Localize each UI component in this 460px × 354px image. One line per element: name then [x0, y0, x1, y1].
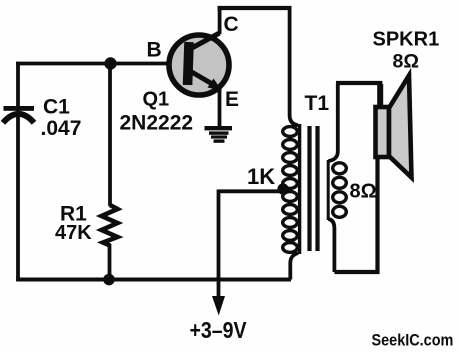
speaker SPKR1: [376, 76, 412, 178]
label E: [225, 88, 239, 111]
svg-text:C: C: [224, 13, 239, 36]
label 1K: [247, 164, 275, 189]
wire: T1 primary bottom lead: [290, 253, 298, 280]
wire: base wire from C1/R1 node to Q1 base: [16, 62, 186, 66]
resistor R1: [102, 205, 118, 246]
label 47K: [55, 222, 92, 244]
wire: R1 branch lower: [108, 244, 112, 280]
wire: collector lead: [218, 6, 222, 34]
label T1: [305, 92, 330, 115]
wire: +V tap wire horizontal: [219, 189, 283, 193]
transformer T1 secondary coil: [328, 160, 346, 220]
supply arrow +3-9V: [212, 296, 225, 316]
node: junction dot base/R1: [104, 57, 116, 69]
svg-text:8Ω: 8Ω: [393, 51, 419, 73]
svg-text:Q1: Q1: [143, 89, 170, 111]
svg-text:2N2222: 2N2222: [120, 112, 194, 135]
label .047: [41, 117, 82, 140]
wire: speaker top wire: [336, 83, 383, 107]
svg-text:SeekIC.com: SeekIC.com: [372, 331, 454, 349]
label 2N2222: [120, 112, 194, 135]
svg-text:C1: C1: [43, 96, 70, 119]
wire: emitter lead to ground: [218, 88, 222, 126]
label C: [224, 13, 239, 36]
svg-text:B: B: [147, 39, 162, 62]
svg-text:E: E: [225, 88, 239, 111]
wire: secondary bottom lead: [328, 219, 334, 272]
transformer T1 primary coil: [283, 124, 300, 254]
wire: top horizontal from collector to T1 primary: [218, 6, 292, 10]
label +3-9V: [190, 318, 248, 344]
label SPKR1: [373, 29, 440, 51]
wire: secondary top lead: [328, 83, 337, 161]
node: junction dot on T1 primary tap: [277, 183, 288, 194]
svg-text:T1: T1: [305, 92, 330, 115]
label B: [147, 39, 162, 62]
svg-text:+3–9V: +3–9V: [190, 318, 248, 344]
label 8 ohm speaker: [393, 51, 419, 73]
transformer T1 core: [307, 126, 319, 251]
svg-text:1K: 1K: [247, 164, 275, 189]
svg-text:47K: 47K: [55, 222, 92, 244]
label R1: [60, 203, 87, 226]
svg-text:8Ω: 8Ω: [350, 181, 377, 203]
wire: bottom horizontal rail: [16, 278, 291, 282]
label 8 ohm secondary: [350, 181, 377, 203]
svg-text:.047: .047: [41, 117, 82, 140]
svg-text:SPKR1: SPKR1: [373, 29, 440, 51]
transistor Q1: [169, 33, 229, 95]
capacitor C1: [3, 106, 34, 123]
wire: +V vertical through bottom rail: [217, 190, 221, 300]
wire: T1 primary top lead: [290, 6, 298, 125]
label Q1: [143, 89, 170, 111]
wire: R1 branch upper: [108, 64, 112, 207]
node: junction dot R1/bottom rail: [103, 274, 115, 286]
watermark SeekIC.com: [372, 331, 454, 349]
wire: left vertical through C1: [16, 62, 20, 281]
ground: [205, 126, 233, 143]
label C1: [43, 96, 70, 119]
wire: speaker bottom wire: [334, 158, 377, 272]
